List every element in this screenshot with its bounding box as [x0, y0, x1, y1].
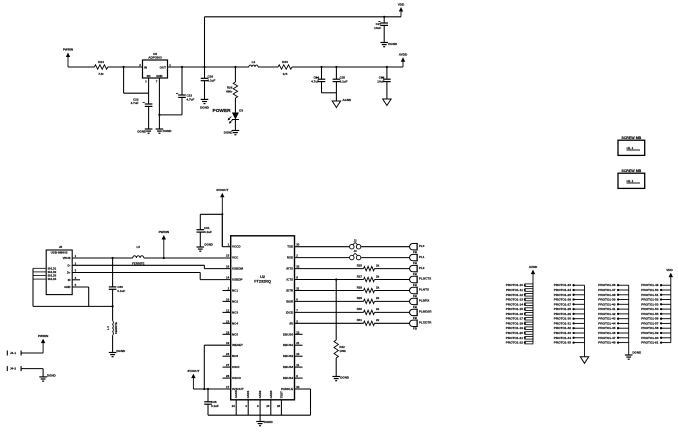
svg-text:PROTO1-56: PROTO1-56 — [641, 317, 658, 321]
svg-text:PL6/DSR: PL6/DSR — [419, 310, 433, 314]
svg-text:19: 19 — [226, 341, 230, 345]
svg-text:OSCO: OSCO — [232, 376, 242, 380]
svg-text:FT232RQ: FT232RQ — [254, 280, 271, 284]
svg-text:J4-2: J4-2 — [10, 367, 16, 371]
svg-text:PROTO1-27: PROTO1-27 — [554, 302, 571, 306]
svg-text:PROTO1-40: PROTO1-40 — [598, 302, 615, 306]
svg-text:PADDLE: PADDLE — [281, 387, 293, 391]
svg-text:0.1uF: 0.1uF — [117, 289, 125, 293]
svg-text:PROTO1-18: PROTO1-18 — [506, 321, 523, 325]
svg-text:DGND: DGND — [137, 130, 147, 134]
svg-text:/RTS: /RTS — [286, 267, 293, 271]
svg-text:0.1uF: 0.1uF — [208, 79, 216, 83]
svg-text:PROTO1-39: PROTO1-39 — [598, 298, 615, 302]
svg-text:D+: D+ — [67, 271, 71, 275]
svg-text:PROTO1-30: PROTO1-30 — [554, 317, 571, 321]
svg-text:PWRIN: PWRIN — [159, 230, 170, 234]
svg-text:R31: R31 — [357, 318, 363, 322]
svg-text:PROTO1-20: PROTO1-20 — [506, 331, 523, 335]
svg-text:PROTO1-44: PROTO1-44 — [598, 321, 615, 325]
svg-text:14: 14 — [226, 276, 230, 280]
svg-text:PROTO1-35: PROTO1-35 — [554, 341, 571, 345]
svg-text:31: 31 — [296, 287, 300, 291]
svg-text:SHLD1: SHLD1 — [48, 266, 57, 270]
svg-text:PROTO1-58: PROTO1-58 — [641, 326, 658, 330]
svg-text:L4: L4 — [106, 326, 110, 330]
svg-text:NC3: NC3 — [232, 310, 238, 314]
svg-text:SCREW MB: SCREW MB — [621, 169, 641, 173]
svg-text:SHLD2: SHLD2 — [48, 270, 57, 274]
svg-text:PROTO1-60: PROTO1-60 — [641, 336, 658, 340]
svg-text:PL7/DTR: PL7/DTR — [419, 321, 432, 325]
svg-text:PWRIN: PWRIN — [38, 334, 49, 338]
svg-text:D3: D3 — [239, 109, 243, 113]
svg-text:PL3/CTS: PL3/CTS — [419, 277, 431, 281]
svg-text:PL1: PL1 — [419, 255, 425, 259]
svg-text:PROTO1-16: PROTO1-16 — [506, 312, 523, 316]
svg-text:PWRIN: PWRIN — [63, 48, 74, 52]
svg-text:2k: 2k — [376, 263, 380, 267]
svg-text:POWER: POWER — [213, 108, 232, 114]
svg-text:IN: IN — [144, 65, 147, 69]
svg-text:2k: 2k — [376, 318, 380, 322]
svg-text:AVDD: AVDD — [399, 53, 408, 57]
svg-text:28: 28 — [226, 374, 230, 378]
svg-text:PL5/RX: PL5/RX — [419, 299, 430, 303]
svg-text:TEST: TEST — [279, 391, 283, 398]
svg-text:FERRITE: FERRITE — [114, 322, 118, 334]
svg-text:VBUS: VBUS — [63, 256, 71, 260]
svg-text:PROTO1-28: PROTO1-28 — [554, 307, 571, 311]
svg-text:DGND: DGND — [200, 106, 210, 110]
svg-text:/DCD: /DCD — [286, 310, 294, 314]
svg-text:PROTO1-37: PROTO1-37 — [598, 288, 615, 292]
svg-text:NC4: NC4 — [232, 321, 238, 325]
svg-text:PROTO1-54: PROTO1-54 — [641, 307, 658, 311]
svg-text:DBUS1: DBUS1 — [283, 343, 294, 347]
svg-text:AGND: AGND — [234, 390, 238, 398]
svg-text:/DTR: /DTR — [286, 289, 294, 293]
svg-text:PROTO1-17: PROTO1-17 — [506, 317, 523, 321]
svg-text:NC6: NC6 — [232, 354, 238, 358]
svg-text:32: 32 — [296, 265, 300, 269]
svg-text:D-: D- — [68, 263, 71, 267]
svg-text:PL2: PL2 — [419, 266, 425, 270]
svg-text:R24: R24 — [98, 60, 104, 64]
svg-text:GND3: GND3 — [269, 390, 273, 398]
svg-text:100k: 100k — [339, 349, 346, 353]
svg-text:/RESET: /RESET — [232, 343, 243, 347]
svg-text:GND2: GND2 — [258, 390, 262, 398]
svg-text:DBUS4: DBUS4 — [283, 376, 294, 380]
svg-text:27: 27 — [226, 363, 230, 367]
svg-text:2k: 2k — [376, 285, 380, 289]
svg-text:VDD: VDD — [666, 268, 673, 272]
svg-text:DGND: DGND — [204, 243, 212, 247]
svg-text:ADP3303: ADP3303 — [148, 56, 162, 60]
svg-text:PROTO1-55: PROTO1-55 — [641, 312, 658, 316]
svg-text:DBUS2: DBUS2 — [283, 354, 294, 358]
svg-text:VCCD: VCCD — [232, 245, 241, 249]
svg-text:13: 13 — [226, 319, 230, 323]
svg-text:0.1uF: 0.1uF — [211, 404, 219, 408]
svg-text:PROTO1-52: PROTO1-52 — [641, 298, 658, 302]
svg-text:R27: R27 — [357, 274, 363, 278]
svg-text:HL 1: HL 1 — [627, 146, 634, 150]
svg-text:DBUS3: DBUS3 — [283, 365, 294, 369]
svg-text:PROTO1-46: PROTO1-46 — [598, 331, 615, 335]
svg-text:PROTO1-49: PROTO1-49 — [641, 283, 658, 287]
svg-text:DGND: DGND — [116, 349, 126, 353]
svg-text:L5: L5 — [137, 245, 141, 249]
svg-text:17: 17 — [226, 385, 230, 389]
svg-text:PROTO1-13: PROTO1-13 — [506, 298, 523, 302]
svg-text:PROTO1-61: PROTO1-61 — [641, 341, 658, 345]
svg-text:SHLD4: SHLD4 — [48, 277, 57, 281]
svg-text:/RI: /RI — [289, 321, 293, 325]
svg-text:GND: GND — [156, 74, 162, 78]
svg-text:NC1: NC1 — [232, 289, 238, 293]
svg-text:PROTO1-43: PROTO1-43 — [598, 317, 615, 321]
svg-text:TXD: TXD — [287, 245, 294, 249]
svg-text:11: 11 — [296, 363, 299, 367]
svg-text:AVDD: AVDD — [529, 265, 538, 269]
svg-text:PROTO1-21: PROTO1-21 — [506, 336, 523, 340]
svg-text:NC5: NC5 — [232, 332, 238, 336]
svg-text:RXD: RXD — [287, 256, 294, 260]
svg-text:R29: R29 — [357, 296, 363, 300]
svg-text:4.7uF: 4.7uF — [131, 101, 139, 105]
svg-text:DBUS0: DBUS0 — [283, 332, 294, 336]
svg-text:0.1uF: 0.1uF — [340, 79, 348, 83]
svg-text:PROTO1-53: PROTO1-53 — [641, 302, 658, 306]
svg-text:4.7uF: 4.7uF — [187, 97, 195, 101]
svg-text:680r: 680r — [226, 90, 233, 94]
svg-text:PROTO1-33: PROTO1-33 — [554, 331, 571, 335]
svg-text:/CTS: /CTS — [286, 278, 293, 282]
svg-text:PROTO1-11: PROTO1-11 — [506, 288, 523, 292]
svg-text:SHLD3: SHLD3 — [48, 274, 57, 278]
svg-text:20: 20 — [266, 404, 270, 408]
svg-text:24: 24 — [232, 404, 236, 408]
svg-text:R28: R28 — [357, 285, 363, 289]
svg-text:USBDM: USBDM — [232, 267, 244, 271]
svg-text:2k: 2k — [376, 296, 380, 300]
svg-text:VDD: VDD — [398, 2, 405, 6]
svg-text:PROTO1-14: PROTO1-14 — [506, 302, 523, 306]
svg-text:2k: 2k — [376, 274, 380, 278]
svg-text:R33: R33 — [282, 60, 288, 64]
svg-text:PROTO1-34: PROTO1-34 — [554, 336, 571, 340]
svg-text:PROTO1-25: PROTO1-25 — [554, 293, 571, 297]
svg-text:USB-MINI-B: USB-MINI-B — [51, 251, 69, 255]
svg-text:J2: J2 — [354, 238, 358, 242]
svg-text:J3: J3 — [354, 249, 358, 253]
svg-text:3V3OUT: 3V3OUT — [187, 369, 199, 373]
svg-text:PROTO1-15: PROTO1-15 — [506, 307, 523, 311]
svg-text:4.7uF: 4.7uF — [311, 79, 319, 83]
svg-text:10uF: 10uF — [377, 79, 384, 83]
svg-text:HL 1: HL 1 — [627, 179, 634, 183]
svg-text:0.1uF: 0.1uF — [204, 230, 212, 234]
svg-text:PROTO1-23: PROTO1-23 — [554, 283, 571, 287]
svg-text:DGND: DGND — [47, 373, 57, 377]
svg-text:ID: ID — [68, 278, 71, 282]
svg-text:PROTO1-45: PROTO1-45 — [598, 326, 615, 330]
svg-text:PROTO1-57: PROTO1-57 — [641, 321, 658, 325]
svg-text:18: 18 — [226, 330, 230, 334]
svg-text:PROTO1-51: PROTO1-51 — [641, 293, 658, 297]
svg-text:12: 12 — [226, 308, 230, 312]
svg-text:PROTO1-50: PROTO1-50 — [641, 288, 658, 292]
svg-text:10: 10 — [226, 297, 230, 301]
svg-text:DGND: DGND — [388, 42, 398, 46]
svg-text:15: 15 — [226, 254, 230, 258]
svg-text:PROTO1-19: PROTO1-19 — [506, 326, 523, 330]
svg-text:10: 10 — [296, 352, 300, 356]
svg-text:PROTO1-32: PROTO1-32 — [554, 326, 571, 330]
svg-text:SCREW MB: SCREW MB — [621, 136, 641, 140]
svg-text:22: 22 — [296, 330, 300, 334]
svg-text:PROTO1-48: PROTO1-48 — [598, 341, 615, 345]
svg-text:U2: U2 — [260, 275, 265, 279]
svg-text:1r5: 1r5 — [283, 72, 288, 76]
svg-text:VCC: VCC — [232, 256, 239, 260]
svg-text:PL0: PL0 — [419, 244, 425, 248]
svg-text:PROTO1-38: PROTO1-38 — [598, 293, 615, 297]
svg-text:33: 33 — [296, 385, 300, 389]
svg-text:DGND: DGND — [224, 131, 234, 135]
svg-text:DGND: DGND — [340, 375, 350, 379]
svg-text:SD: SD — [147, 74, 151, 78]
svg-text:PROTO1-26: PROTO1-26 — [554, 298, 571, 302]
svg-text:PROTO1-29: PROTO1-29 — [554, 312, 571, 316]
svg-text:PROTO1-24: PROTO1-24 — [554, 288, 571, 292]
svg-text:21: 21 — [296, 341, 300, 345]
svg-text:30: 30 — [296, 243, 300, 247]
svg-text:3V3OUT: 3V3OUT — [216, 188, 228, 192]
svg-text:PROTO1-59: PROTO1-59 — [641, 331, 658, 335]
svg-text:NC2: NC2 — [232, 299, 238, 303]
svg-text:/DSR: /DSR — [286, 299, 294, 303]
svg-text:GND1: GND1 — [246, 390, 250, 398]
svg-text:J5: J5 — [59, 245, 63, 249]
svg-text:PROTO1-36: PROTO1-36 — [598, 283, 615, 287]
svg-text:23: 23 — [226, 352, 230, 356]
svg-text:PROTO1-41: PROTO1-41 — [598, 307, 615, 311]
svg-text:R30: R30 — [357, 307, 363, 311]
svg-text:DGND: DGND — [163, 129, 173, 133]
svg-text:16: 16 — [226, 265, 230, 269]
svg-text:PROTO1-10: PROTO1-10 — [506, 283, 523, 287]
svg-text:USBDP: USBDP — [232, 278, 243, 282]
svg-text:J4-1: J4-1 — [10, 351, 16, 355]
svg-text:PROTO1-31: PROTO1-31 — [554, 321, 571, 325]
svg-text:PROTO1-47: PROTO1-47 — [598, 336, 615, 340]
svg-text:DGND: DGND — [264, 420, 274, 424]
svg-text:PROTO1-42: PROTO1-42 — [598, 312, 615, 316]
svg-text:OSCI: OSCI — [232, 365, 240, 369]
svg-text:PROTO1-22: PROTO1-22 — [506, 341, 523, 345]
svg-text:L2: L2 — [252, 60, 256, 64]
svg-text:10uF: 10uF — [374, 26, 381, 30]
svg-text:DGND: DGND — [632, 351, 642, 355]
svg-text:2k: 2k — [376, 307, 380, 311]
svg-text:R25: R25 — [357, 263, 363, 267]
svg-text:PL4/TX: PL4/TX — [419, 288, 429, 292]
svg-text:PROTO1-12: PROTO1-12 — [506, 293, 523, 297]
svg-text:7.5r: 7.5r — [98, 72, 104, 76]
svg-text:OUT: OUT — [160, 65, 167, 69]
svg-text:AGND: AGND — [342, 98, 352, 102]
svg-text:GND: GND — [64, 285, 70, 289]
svg-text:26: 26 — [277, 404, 281, 408]
